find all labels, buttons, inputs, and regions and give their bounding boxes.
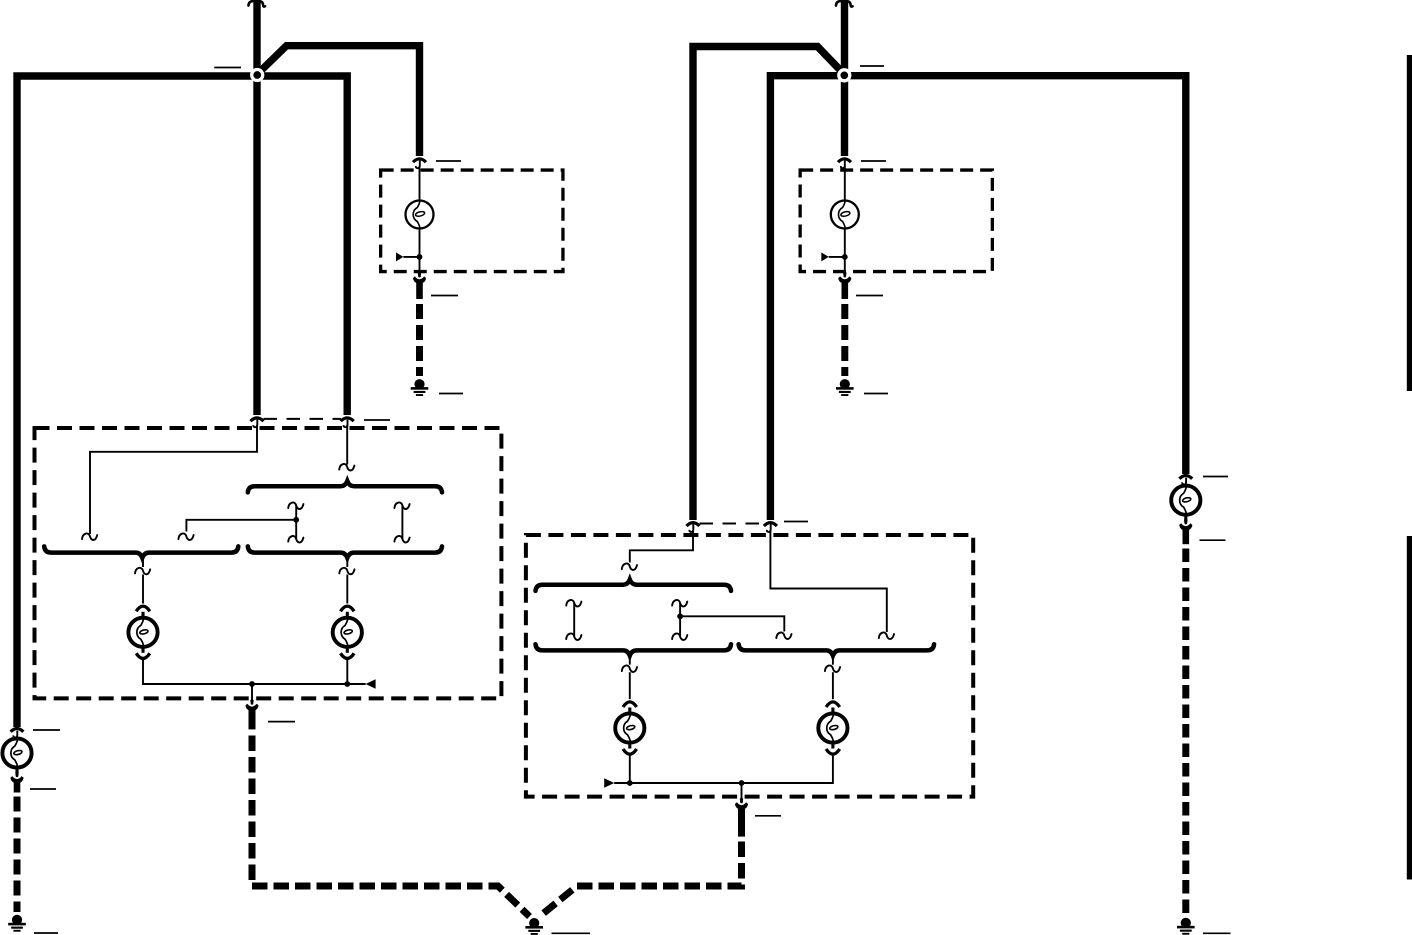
label line at left edge lamp top connector	[33, 729, 60, 731]
wire: from pin P4 node right and down to strip T4b	[680, 616, 784, 631]
bulb M3: right tail lamp	[615, 702, 644, 754]
label line at right edge earth point	[1203, 932, 1231, 934]
connector hook at (347.2,467) onto strip T1	[339, 464, 354, 471]
wire: right box bottom ground bus	[614, 755, 833, 784]
wire: right box pin2 lead jog right and down to strip T4b	[770, 530, 886, 632]
connector pair: left box entry pin 1 (x=257)	[251, 418, 264, 427]
wire: left side-marker bulb to ground exit	[419, 229, 421, 276]
wire: arrow stub to node	[829, 256, 845, 258]
wire: lamp M2 bottom to ground bus	[346, 659, 348, 685]
bridging pin P2 with hooks between strips (x=402.4)	[394, 502, 409, 542]
connector hook above lamp M1	[135, 568, 150, 575]
connector hook at (629.8,566.5) onto strip T3	[622, 563, 637, 570]
label line at left side-marker box feed connector	[436, 160, 461, 162]
label line at right box ground exit	[755, 815, 781, 817]
bridging pin P3 with hooks between strips (x=574.2)	[566, 600, 581, 640]
wire: strip T4b center down to lamp M4	[832, 656, 834, 665]
wire: right main horizontal rail y=75.7 from x=770 corner to right edge drop (x=1185.8) down to right lamp	[770, 76, 1185, 520]
node: ground bus exit dot (252,684)	[249, 681, 255, 687]
node: ground bus exit dot (741.5,783)	[739, 780, 745, 786]
label line at left edge earth point	[34, 932, 58, 934]
wire: strip T2b center down to lamp M2	[346, 558, 348, 567]
connector strip T2a: lower-left brace in left box	[44, 546, 238, 557]
connector strip T2b: lower-right brace in left box	[248, 546, 442, 557]
connector coupling hooks at top of left feed wire	[248, 1, 265, 7]
node: lamp M3 join dot (629.8,783)	[627, 780, 633, 786]
wire: branch from junction A diagonally up to x=419.5 feeding left side-marker lamp box	[259, 46, 420, 156]
connector pair: left box entry pin 2 (x=347.2)	[341, 418, 354, 427]
node: junction dot in left side-marker box	[417, 254, 423, 260]
bulb M2: left turn-signal lamp	[333, 606, 362, 658]
connector hook at (886.8,635.5) into strip T4b	[879, 632, 894, 639]
connector hook above lamp M4	[825, 665, 840, 672]
bulb M6: right license/clearance lamp at right side	[1171, 486, 1200, 515]
current track margin bar upper right	[1407, 55, 1412, 391]
junction B: node circle at (844.5,75.5)	[839, 70, 850, 81]
wire: arrow stub to node	[403, 256, 419, 258]
label line at right side-marker box feed connector	[861, 160, 886, 162]
enclosure: left front lamp unit dashed box	[35, 428, 502, 698]
connector housing dashed link between left box entry pins	[264, 418, 342, 420]
wire: right battery feed vertical (x=844.5) from top edge down to right side-marker lamp box	[841, 0, 848, 156]
node: junction dot in right side-marker box	[842, 254, 848, 260]
label line at left side-marker earth point	[439, 393, 463, 395]
wire: hook to lamp M3 top terminal	[629, 672, 631, 699]
wire: left battery feed vertical (x=257) from top edge down to left fuse box connector	[253, 0, 260, 415]
label line at junction A	[214, 67, 241, 69]
wire: left box ground lead dashed run to common earth	[252, 736, 530, 917]
wire: left side-marker ground lead dashed	[416, 304, 423, 376]
enclosure: right side-marker lamp dashed box	[800, 170, 992, 271]
wire: from pin P1 node left and down to strip T2a	[186, 520, 296, 532]
label line at left box entry connector	[364, 419, 390, 421]
wire: right box ground bus exit drop	[741, 783, 743, 800]
connector housing dashed link between right box entry pins	[700, 523, 765, 525]
bulb E1: left side-marker lamp	[406, 201, 434, 229]
wire: right side-marker ground lead stub	[841, 282, 848, 300]
connector strip T3: upper brace in right box	[536, 580, 732, 591]
wire: ground bus exit drop	[251, 684, 253, 702]
label line at left edge lamp bottom connector	[30, 788, 56, 790]
connector pair below right edge lamp	[1179, 514, 1192, 545]
connector pair: left side-marker box feed (x=419.5,y=156)	[413, 159, 426, 168]
wire: left box bottom ground bus	[143, 659, 366, 685]
wire: right box ground lead stub	[738, 809, 745, 837]
connector strip T4a: lower-left brace in right box	[536, 644, 732, 655]
enclosure: right rear lamp unit dashed box	[526, 535, 973, 797]
bridging pin P4 with hooks between strips (x=680.1)	[672, 600, 687, 640]
wire: right side-marker ground lead dashed	[841, 304, 848, 376]
label line at junction B	[860, 65, 884, 67]
connector pair: right box entry pin 1 (x=693)	[687, 523, 700, 532]
connector hook above lamp M3	[622, 665, 637, 672]
label line at right edge lamp top connector	[1203, 476, 1228, 478]
connector pair above left edge lamp (x=17,y=727)	[11, 729, 24, 738]
wire: feed inside right side-marker box down to bulb	[844, 166, 846, 200]
node: lamp M2 join dot (347.3,684)	[344, 681, 350, 687]
arrow: ground bus continuation reference	[366, 679, 376, 689]
wire: lamp M3 bottom to ground bus	[629, 755, 631, 784]
wire: left box pin1 lead jog to connector strip T1 left	[90, 425, 257, 534]
current track margin bar lower right	[1407, 536, 1412, 880]
node: junction dot on pin P1	[293, 517, 299, 523]
arrow: branch reference into left side-marker circuit	[396, 252, 403, 261]
connector hook at (186.4,536.5) into strip T2a	[178, 533, 193, 540]
wire: right edge lamp ground lead dashed	[1182, 549, 1189, 916]
connector coupling hooks at top of right feed wire	[836, 1, 853, 7]
connector pair: right box entry pin 2 (x=770.4)	[764, 523, 777, 532]
wire: right box ground lead dashed run to common earth	[540, 842, 742, 917]
connector pair: right side-marker box feed (x=844.5,y=156)	[838, 159, 851, 168]
wire: right side-marker bulb to ground exit	[844, 229, 846, 276]
wire: left main horizontal rail y=76 with drop at left edge (x=17) and drop to left lamp unit box (x=347)	[17, 76, 347, 727]
node: junction dot on pin P4	[677, 613, 683, 619]
wire: left side-marker ground lead stub	[416, 282, 423, 300]
label line at common earth point	[552, 932, 591, 934]
wire: hook to lamp M1 top terminal	[142, 575, 144, 604]
connector pair: right side-marker ground exit (x=844.8)	[838, 273, 851, 284]
wire: left box ground lead stub	[249, 709, 256, 729]
wire: feed inside left side-marker box down to bulb	[419, 166, 421, 200]
connector strip T4b: lower-right brace in right box	[739, 644, 935, 655]
connector pair: left box ground exit (x=252)	[245, 700, 258, 711]
ground: right edge earth point	[1177, 918, 1195, 935]
label line at right side-marker ground exit	[856, 295, 883, 297]
wire: branch from junction B diagonally up-left to x=693 feeding right tail lamp unit box	[693, 47, 843, 521]
connector strip T1: upper brace in left box	[248, 481, 442, 492]
label line at right side-marker earth point	[864, 393, 888, 395]
ground: common earth point at bottom center	[525, 918, 543, 935]
bulb M4: right turn-signal lamp	[818, 702, 847, 754]
wire: hook to lamp M4 top terminal	[832, 672, 834, 699]
wire: strip T4a center down to lamp M3	[629, 656, 631, 665]
ground: left edge earth point	[8, 915, 26, 932]
connector pair above right edge lamp (x=1185.8,y=474)	[1179, 476, 1192, 485]
ground: right side-marker earth point	[836, 379, 854, 396]
arrow: branch reference into right side-marker circuit	[821, 252, 828, 261]
connector hook at (784.3,635.5) into strip T4b	[776, 632, 791, 639]
enclosure: left side-marker lamp dashed box	[381, 170, 563, 271]
connector pair below left edge lamp	[10, 767, 23, 793]
wire: right box pin1 lead jog to connector strip T3 center	[630, 530, 693, 563]
label line at left side-marker ground exit	[431, 295, 458, 297]
bridging pin P1 with hooks between strips (x=296.2)	[288, 502, 303, 542]
junction A: node circle at (257,74.5)	[252, 70, 263, 81]
connector hook above lamp M2	[339, 568, 354, 575]
arrow: ground bus continuation reference right box	[604, 778, 614, 788]
wire: strip T2a center down to left lamp M1	[142, 558, 144, 567]
connector pair: left side-marker ground exit (x=419.5)	[413, 273, 426, 284]
wire: left box pin2 lead straight down	[346, 425, 348, 465]
bulb E2: right side-marker lamp	[831, 201, 859, 229]
wire: hook to lamp M2 top terminal	[346, 575, 348, 604]
label line at right edge lamp bottom connector	[1200, 539, 1226, 541]
label line at left box ground exit	[268, 721, 295, 723]
connector pair: right box ground exit (x=741.5)	[735, 798, 748, 809]
bulb M1: left parking lamp	[128, 606, 157, 658]
ground: left side-marker earth point	[411, 379, 429, 396]
connector hook at (90,536.5) into strip T2a	[82, 533, 97, 540]
label line at right box entry connector	[784, 521, 808, 523]
wire: left edge lamp ground lead dashed	[14, 797, 21, 913]
bulb M5: left license/clearance lamp at page left edge	[2, 738, 31, 767]
